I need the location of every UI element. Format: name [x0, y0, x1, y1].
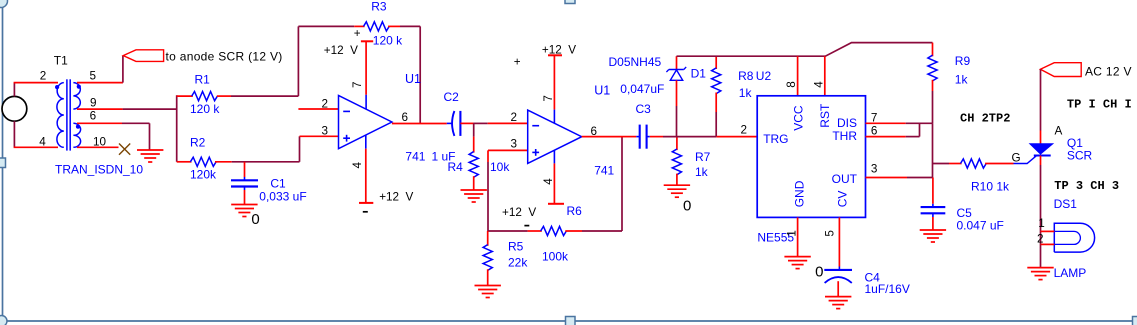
capacitor C2 — [447, 111, 474, 136]
svg-text:7: 7 — [871, 112, 878, 125]
wire R1 to op-amp net — [231, 95, 298, 97]
svg-text:4: 4 — [812, 81, 825, 88]
wire pin3 down vertical — [487, 150, 489, 162]
svg-text:R6: R6 — [567, 204, 583, 218]
thyristor Q1 SCR — [1030, 144, 1052, 156]
wire TRG net red — [716, 136, 757, 138]
svg-text:R2: R2 — [190, 135, 206, 149]
svg-text:TRAN_ISDN_10: TRAN_ISDN_10 — [55, 162, 143, 176]
svg-text:CH 2TP2: CH 2TP2 — [960, 111, 1010, 125]
svg-text:5: 5 — [824, 230, 837, 237]
ground (transformer pin 6) — [137, 149, 163, 151]
transformer T1 — [55, 79, 81, 150]
svg-text:R1: R1 — [195, 72, 211, 86]
svg-text:0,033 uF: 0,033 uF — [259, 189, 306, 203]
svg-text:DIS: DIS — [837, 116, 857, 130]
wire pin3 vertical — [299, 136, 301, 162]
wire feedback vertical op2 — [621, 137, 623, 231]
selection handle left-middle — [0, 158, 6, 168]
svg-text:U1: U1 — [405, 72, 421, 86]
lamp DS1 — [1041, 223, 1095, 252]
svg-text:+12 V: +12 V — [379, 190, 413, 203]
svg-text:G: G — [1012, 152, 1021, 165]
wire C2 to op2 pin2 dark segment — [474, 122, 488, 124]
power terminal +12V (op2 pin4) — [548, 203, 564, 205]
svg-text:U2: U2 — [756, 69, 772, 83]
svg-text:4: 4 — [542, 178, 555, 185]
wire secondary pin 10 — [77, 146, 119, 148]
svg-text:TP 3 CH 3: TP 3 CH 3 — [1054, 179, 1119, 193]
IC U2 NE555 body — [757, 96, 865, 218]
svg-text:D1: D1 — [691, 67, 707, 81]
svg-text:8: 8 — [785, 81, 798, 88]
power terminal +12V (op2 pin7) — [548, 54, 562, 56]
op-amp U1 (first 741) — [339, 95, 392, 148]
svg-text:1: 1 — [1038, 217, 1045, 230]
svg-text:+: + — [514, 56, 521, 69]
op1 pin 4 wire — [365, 135, 367, 149]
wire vertical R1-R2 left — [176, 95, 178, 162]
svg-text:+12 V: +12 V — [324, 44, 358, 57]
source circle — [2, 96, 27, 121]
wire R3 right vertical feedback — [419, 26, 421, 123]
svg-text:6: 6 — [402, 111, 409, 124]
resistor R8 — [712, 56, 721, 136]
resistor R2 — [177, 157, 232, 166]
svg-text:3: 3 — [871, 162, 878, 175]
gate lead to SCR — [1014, 156, 1037, 164]
svg-text:120k: 120k — [190, 167, 217, 181]
svg-text:U1: U1 — [594, 84, 610, 98]
connector AC 12 V — [1040, 63, 1081, 77]
svg-text:0.047 uF: 0.047 uF — [957, 219, 1004, 233]
svg-text:VCC: VCC — [792, 105, 806, 131]
power terminal +12V (op1 pin4) — [359, 202, 373, 204]
ground (R4) — [461, 189, 487, 191]
svg-text:6: 6 — [90, 110, 97, 123]
svg-text:R4: R4 — [448, 160, 464, 174]
wire THR pin 6 — [866, 136, 906, 138]
resistor R9 — [928, 43, 937, 124]
wire GND pin 1 — [797, 217, 799, 256]
selection handle bottom-left — [0, 316, 7, 325]
svg-text:2: 2 — [511, 111, 518, 124]
wire R3 left vertical — [297, 26, 299, 96]
op2 pin 4 wire — [553, 150, 555, 163]
svg-text:RST: RST — [818, 103, 832, 128]
svg-text:TP I CH I: TP I CH I — [1067, 97, 1132, 111]
resistor R10 — [933, 159, 1014, 168]
svg-text:GND: GND — [793, 180, 807, 207]
svg-text:10k: 10k — [490, 160, 510, 174]
svg-text:2: 2 — [322, 97, 329, 110]
wire R3 top right — [400, 25, 420, 27]
wire op2 output — [582, 136, 622, 138]
power terminal +12V (op1 pin7) — [361, 40, 373, 42]
connector to anode SCR — [123, 50, 163, 62]
svg-text:T1: T1 — [54, 54, 68, 68]
svg-text:1: 1 — [785, 230, 798, 237]
svg-text:C2: C2 — [444, 90, 460, 104]
wire secondary pin 6 red — [77, 122, 122, 124]
svg-text:1k: 1k — [739, 86, 753, 100]
selection handle bottom-middle — [566, 317, 576, 325]
selection handle top-middle — [565, 0, 575, 4]
minus sign (op2 pin4) — [524, 225, 529, 227]
svg-text:R7: R7 — [695, 150, 711, 164]
svg-text:AC 12 V: AC 12 V — [1085, 64, 1132, 78]
svg-text:1uF/16V: 1uF/16V — [865, 282, 910, 296]
wire to op2 pin2 red segment — [488, 122, 528, 124]
svg-text:7: 7 — [351, 81, 364, 88]
capacitor C4 (polarized) — [824, 267, 852, 297]
selection frame bottom edge — [3, 320, 1137, 322]
svg-text:LAMP: LAMP — [1054, 266, 1087, 280]
wire pin 6 net — [122, 122, 150, 124]
svg-text:1k: 1k — [955, 72, 969, 86]
selection handle top-left — [0, 0, 8, 8]
svg-text:4: 4 — [351, 162, 364, 169]
svg-text:0: 0 — [251, 211, 259, 228]
svg-text:DS1: DS1 — [1054, 197, 1078, 211]
ground (C5) — [920, 229, 946, 231]
svg-text:R3: R3 — [371, 0, 387, 14]
svg-text:100k: 100k — [542, 250, 569, 264]
wire pin5 to connector vertical — [122, 56, 124, 83]
svg-text:+12 V: +12 V — [542, 44, 576, 57]
op-amp U1 (second 741) — [528, 110, 582, 163]
capacitor C5 — [921, 178, 946, 231]
svg-text:741: 741 — [594, 163, 614, 177]
svg-text:D05NH45: D05NH45 — [609, 55, 662, 69]
svg-text:120 k: 120 k — [373, 33, 403, 47]
svg-text:0,047uF: 0,047uF — [620, 82, 664, 96]
wire pin 6 vertical to ground — [149, 123, 151, 150]
svg-text:R9: R9 — [955, 54, 971, 68]
svg-text:6: 6 — [871, 125, 878, 138]
wire SCR cathode — [1040, 156, 1042, 166]
wire AC to SCR anode — [1040, 69, 1042, 130]
wire VCC pin 8 — [797, 56, 799, 96]
svg-text:3: 3 — [322, 125, 329, 138]
selection frame left edge — [2, 0, 4, 321]
wire R2 to pin3 net — [232, 161, 300, 163]
wire R6 right net — [582, 230, 622, 232]
svg-text:2: 2 — [1037, 232, 1044, 245]
wire pin3-node to R6 — [488, 230, 528, 232]
wire OUT pin 3 — [866, 177, 908, 179]
wire op1 pin 3 input — [300, 135, 339, 137]
svg-text:9: 9 — [90, 97, 97, 110]
svg-text:CV: CV — [836, 191, 850, 208]
wire secondary pin 5 — [77, 82, 123, 84]
wire op2 pin 3 input — [488, 149, 528, 151]
svg-text:22k: 22k — [508, 256, 528, 270]
resistor R1 — [177, 92, 231, 101]
ground (C1) — [231, 204, 257, 206]
ground (555 GND) — [784, 256, 810, 258]
resistor R7 — [672, 137, 681, 186]
wire source top vertical — [13, 83, 15, 97]
ground (R5) — [475, 285, 501, 287]
minus sign (op1 pin4) — [363, 211, 368, 213]
resistor R6 — [528, 226, 582, 235]
svg-text:2: 2 — [741, 124, 748, 137]
svg-text:R8: R8 — [738, 69, 754, 83]
svg-text:R10 1k: R10 1k — [971, 180, 1010, 194]
wire op1 output — [392, 123, 447, 125]
capacitor C3 — [622, 125, 663, 149]
svg-text:+: + — [354, 27, 361, 40]
svg-text:3: 3 — [511, 138, 518, 151]
resistor R3 — [354, 22, 400, 31]
wire secondary pin 9 red — [77, 108, 123, 110]
svg-text:7: 7 — [542, 95, 555, 102]
op2 pin 7 wire — [553, 55, 555, 109]
wire DIS pin 7 — [866, 122, 906, 124]
wire RST pin 4 — [824, 56, 826, 96]
svg-text:741: 741 — [405, 149, 425, 163]
svg-text:to anode SCR (12 V): to anode SCR (12 V) — [166, 49, 283, 63]
selection handle bottom-right — [1133, 317, 1137, 325]
resistor R4 — [469, 123, 478, 190]
no-connect X on pin 10 — [119, 144, 130, 155]
wire THR to DIS jog — [919, 123, 921, 136]
svg-text:TRG: TRG — [763, 132, 788, 146]
resistor R5 — [483, 231, 492, 286]
wire TRG net dark — [663, 136, 716, 138]
wire op1 pin 2 input — [298, 108, 338, 110]
svg-text:A: A — [1055, 125, 1063, 138]
ground (lamp) — [1027, 267, 1053, 269]
wire R3 top left — [298, 25, 354, 27]
svg-text:5: 5 — [90, 70, 97, 83]
diode D1 (zener) — [666, 56, 686, 136]
svg-text:0: 0 — [815, 264, 823, 281]
wire source bottom vertical — [13, 121, 15, 147]
svg-text:C3: C3 — [636, 102, 652, 116]
op1 pin 7 wire — [365, 41, 367, 95]
ground (R7) — [664, 184, 690, 186]
svg-text:OUT: OUT — [832, 172, 858, 186]
svg-text:1k: 1k — [695, 165, 709, 179]
svg-text:+12 V: +12 V — [502, 206, 536, 219]
wire right column vertical — [932, 123, 934, 177]
wire primary pin 4 — [14, 146, 58, 148]
svg-text:SCR: SCR — [1067, 149, 1093, 163]
wire pin 9 net — [123, 108, 177, 110]
wire primary pin 2 — [14, 82, 58, 84]
ground (C4) — [825, 296, 851, 298]
svg-text:4: 4 — [39, 136, 46, 149]
svg-text:120 k: 120 k — [190, 102, 220, 116]
svg-text:R5: R5 — [508, 239, 524, 253]
wire top supply rail — [677, 43, 933, 57]
capacitor C1 — [231, 162, 258, 205]
svg-text:2: 2 — [40, 70, 47, 83]
svg-text:THR: THR — [832, 129, 857, 143]
svg-text:6: 6 — [591, 125, 598, 138]
svg-text:0: 0 — [683, 198, 691, 215]
wire CV pin 5 — [838, 217, 840, 266]
